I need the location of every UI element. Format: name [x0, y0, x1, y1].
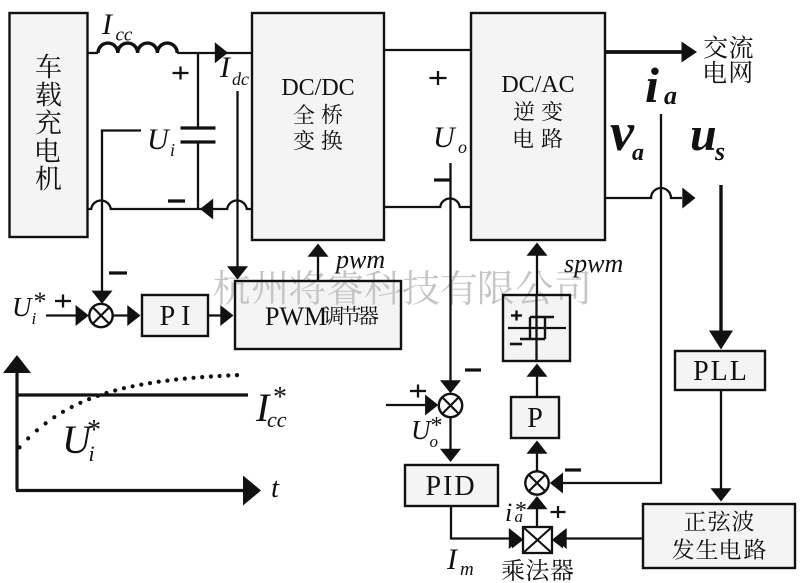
svg-text:DC/AC: DC/AC [501, 72, 574, 98]
svg-text:i: i [170, 140, 175, 160]
svg-text:PID: PID [425, 471, 476, 502]
svg-text:U: U [433, 121, 457, 154]
svg-text:cc: cc [267, 407, 287, 432]
svg-text:o: o [458, 137, 467, 157]
svg-text:I: I [446, 543, 459, 576]
svg-text:a: a [632, 140, 644, 166]
svg-text:t: t [271, 472, 280, 504]
svg-text:i: i [89, 441, 95, 466]
svg-text:s: s [714, 137, 725, 166]
svg-text:I: I [219, 51, 232, 84]
svg-text:P: P [527, 403, 543, 434]
svg-text:cc: cc [116, 25, 133, 46]
svg-text:i: i [505, 498, 512, 527]
svg-text:P I: P I [160, 301, 191, 332]
svg-text:i: i [645, 57, 659, 113]
svg-text:U: U [147, 123, 171, 156]
svg-text:i: i [32, 309, 37, 328]
svg-text:a: a [664, 81, 677, 110]
svg-text:PLL: PLL [693, 356, 749, 387]
svg-text:o: o [430, 432, 439, 451]
svg-text:*: * [515, 498, 527, 524]
svg-text:I: I [101, 8, 114, 41]
svg-text:dc: dc [232, 69, 249, 89]
svg-text:PWM: PWM [265, 302, 327, 331]
svg-text:DC/DC: DC/DC [281, 75, 354, 101]
svg-text:spwm: spwm [564, 249, 623, 278]
svg-text:m: m [460, 559, 474, 580]
svg-text:U: U [12, 292, 33, 322]
svg-text:u: u [690, 108, 717, 161]
svg-text:pwm: pwm [334, 245, 385, 274]
